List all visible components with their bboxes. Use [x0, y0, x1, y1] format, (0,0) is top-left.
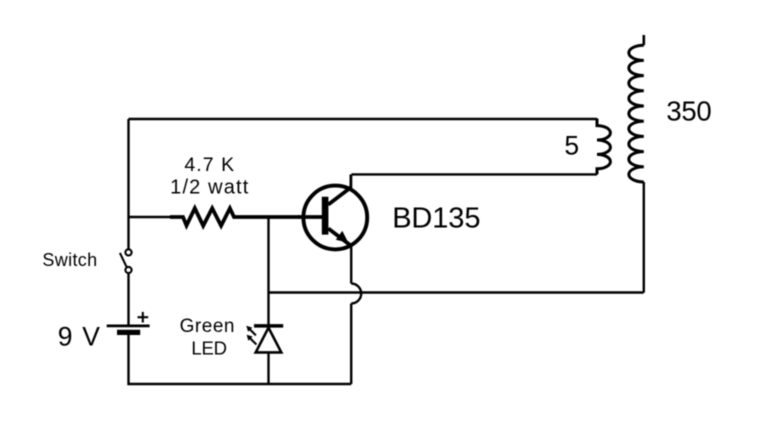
- svg-text:LED: LED: [191, 337, 226, 358]
- wire: LED cathode to bottom rail: [267, 352, 269, 384]
- label: battery + polarity: [138, 312, 149, 323]
- wire: LED node to resistor-base wire: [267, 217, 269, 293]
- switch S1: [120, 249, 132, 273]
- LED light arrow lower: [247, 335, 257, 345]
- wire: left rail from top rail down to switch: [127, 119, 129, 249]
- svg-text:1/2 watt: 1/2 watt: [170, 176, 249, 198]
- wire: top rail from left rail to transformer primary: [129, 118, 598, 120]
- svg-text:Switch: Switch: [42, 250, 97, 270]
- LED light arrow upper: [246, 326, 256, 336]
- transistor Q1 BD135: [303, 174, 367, 249]
- wire: crossover hop over mid wire: [351, 284, 361, 304]
- resistor R1 4.7K: [170, 208, 300, 225]
- transformer secondary winding L2 (350 turns) top lead: [642, 35, 645, 45]
- wire: left rail junction to resistor: [129, 216, 172, 218]
- battery BT1 9V: [107, 326, 150, 333]
- svg-text:5: 5: [564, 131, 579, 161]
- svg-text:4.7 K: 4.7 K: [184, 154, 235, 176]
- transformer secondary winding L2 (350 turns): [629, 45, 644, 182]
- wire: secondary bottom lead to mid wire: [643, 182, 645, 293]
- wire: switch to battery positive: [127, 273, 129, 324]
- svg-text:9 V: 9 V: [58, 322, 101, 352]
- svg-text:BD135: BD135: [392, 203, 480, 235]
- wire: battery negative to bottom rail: [129, 335, 352, 384]
- LED D1 green: [254, 326, 283, 353]
- wire: resistor to transistor base: [298, 215, 322, 219]
- transformer primary winding L1 (5 turns): [597, 119, 610, 175]
- wire: collector to transformer primary bottom: [352, 173, 598, 175]
- svg-text:Green: Green: [180, 316, 235, 337]
- wire: mid wire from LED node to transformer secondary: [269, 291, 644, 293]
- svg-text:350: 350: [666, 95, 711, 126]
- wire: hop down to bottom rail: [350, 304, 352, 385]
- wire: emitter down to crossover hop: [350, 245, 352, 284]
- wire: LED node down to LED anode bar: [267, 293, 269, 326]
